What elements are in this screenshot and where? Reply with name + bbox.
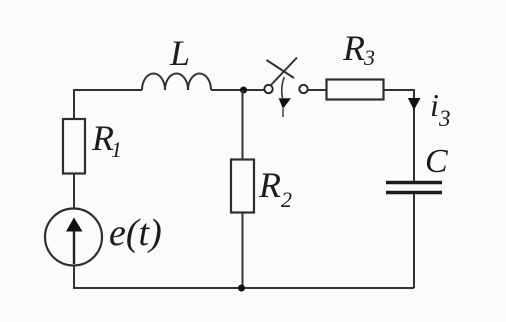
svg-text:1: 1 <box>111 137 122 162</box>
source e(t) U1 <box>45 209 162 266</box>
svg-text:R: R <box>258 165 281 205</box>
svg-text:3: 3 <box>438 106 451 131</box>
switch S1 <box>264 58 307 118</box>
current arrow i3 <box>408 87 451 131</box>
wire R1 to source <box>73 174 75 210</box>
wire inductor to switch <box>211 89 264 91</box>
wire R3 to right corner <box>384 90 415 182</box>
capacitor C <box>386 143 448 193</box>
wire bottom horizontal <box>73 287 414 289</box>
wire top left horizontal <box>73 89 142 91</box>
wire source to bottom <box>73 265 75 288</box>
wire junction to R2 <box>242 90 244 160</box>
wire left vertical top (source/R1 branch upper) <box>73 90 75 120</box>
wire switch to R3 <box>308 89 328 91</box>
resistor R3 <box>327 28 384 100</box>
svg-text:3: 3 <box>363 45 375 70</box>
inductor L <box>142 33 211 90</box>
svg-text:e(t): e(t) <box>109 212 162 254</box>
wire R2 to bottom <box>242 213 244 289</box>
svg-text:i: i <box>430 87 439 123</box>
svg-text:C: C <box>425 143 448 180</box>
svg-text:L: L <box>169 33 190 73</box>
node junction bottom (dot) <box>238 285 245 292</box>
svg-text:2: 2 <box>281 187 292 212</box>
svg-text:R: R <box>342 28 365 68</box>
wire capacitor to bottom <box>413 194 415 288</box>
node junction top (dot) <box>240 87 247 94</box>
resistor R1 <box>63 118 122 174</box>
resistor R2 <box>231 160 292 213</box>
